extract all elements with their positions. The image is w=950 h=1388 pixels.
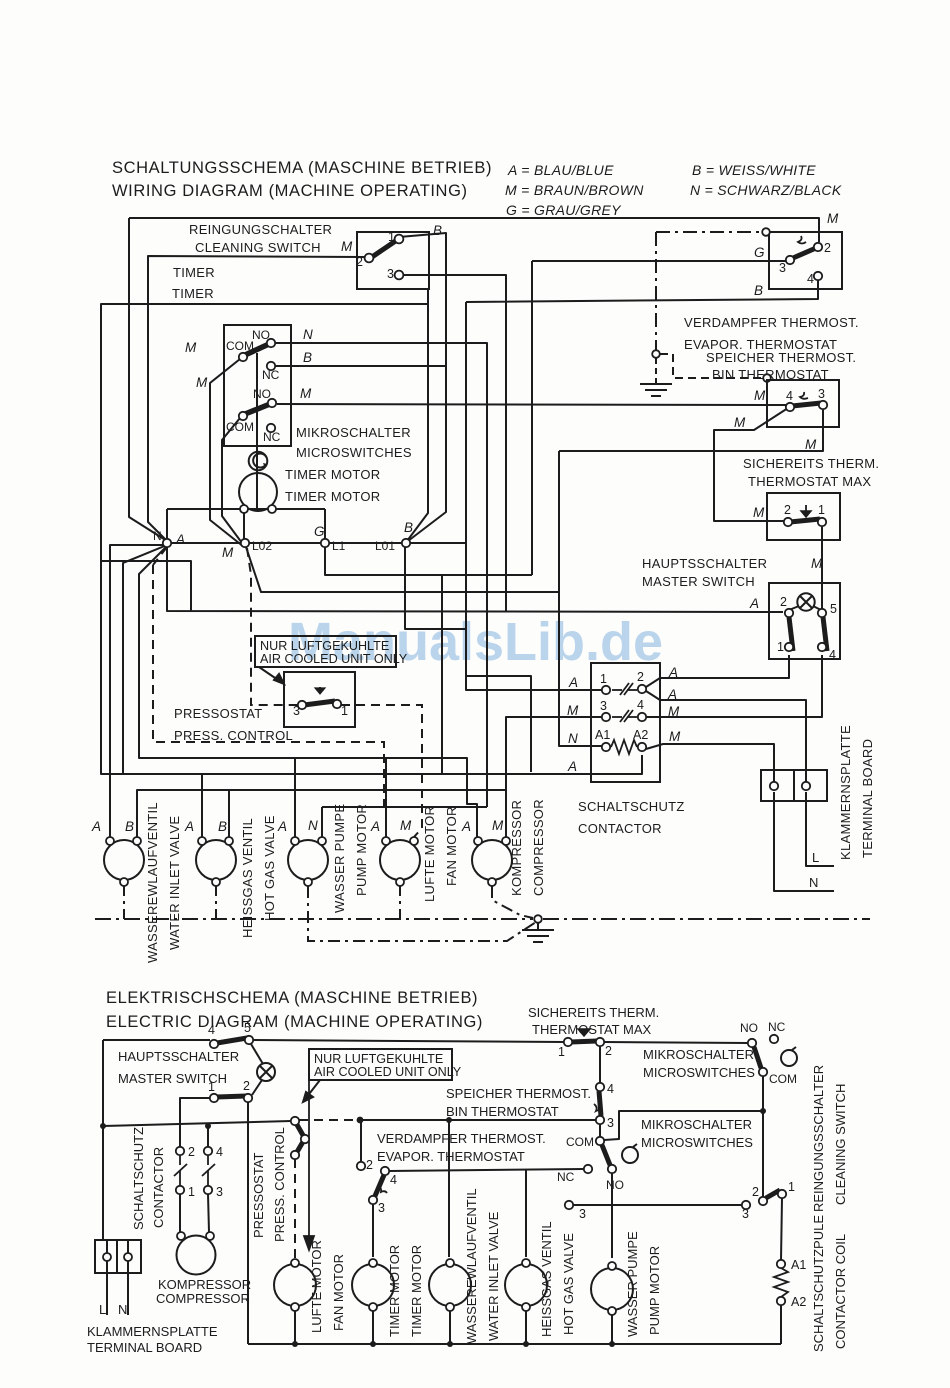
microswitches box <box>224 325 291 509</box>
svg-text:MASTER SWITCH: MASTER SWITCH <box>118 1071 227 1086</box>
wire pump A terminal tap from y758 bus <box>294 758 296 837</box>
svg-text:NC: NC <box>768 1020 786 1034</box>
wire timer motor bottom to bus <box>372 1311 374 1344</box>
svg-text:A: A <box>184 819 194 834</box>
svg-text:1: 1 <box>788 1180 795 1194</box>
svg-text:3: 3 <box>579 1207 586 1221</box>
svg-text:PUMP MOTOR: PUMP MOTOR <box>354 804 369 896</box>
label fan motor bottom (vertical) <box>309 1240 346 1333</box>
svg-text:4: 4 <box>390 1173 397 1187</box>
bottom contactor contacts with slash <box>174 1147 215 1194</box>
motor fan <box>380 840 420 880</box>
junction circle on bin thermostat top <box>763 374 771 382</box>
timer motor small cam circle with arrow <box>249 452 268 471</box>
label mikroschalter 2 bottom <box>641 1117 753 1150</box>
svg-text:3: 3 <box>742 1207 749 1221</box>
svg-text:WASSER PUMPE: WASSER PUMPE <box>332 804 347 913</box>
svg-text:WASSEREWLAUFVENTIL: WASSEREWLAUFVENTIL <box>464 1188 479 1344</box>
svg-text:COMPRESSOR: COMPRESSOR <box>156 1291 250 1306</box>
svg-text:M: M <box>668 704 680 719</box>
wire M from node N up to cleaning switch contact 2 <box>148 256 365 541</box>
svg-text:4: 4 <box>829 648 836 662</box>
wire COM jog to microswitch2 COM <box>604 1111 763 1140</box>
wire terminal board L lead <box>806 792 834 866</box>
bin thermostat contacts 4 3 with bar <box>786 392 827 411</box>
wire L01 jog down to x466 vertical <box>405 547 466 629</box>
svg-text:M: M <box>754 388 766 403</box>
wire evap 3 to timer motor <box>372 1204 374 1257</box>
svg-text:M: M <box>827 211 839 226</box>
svg-text:EVAPOR. THERMOSTAT: EVAPOR. THERMOSTAT <box>377 1149 525 1164</box>
svg-text:MIKROSCHALTER: MIKROSCHALTER <box>641 1117 752 1132</box>
bottom pressostat changeover contacts <box>291 1117 309 1159</box>
svg-text:2: 2 <box>366 1158 373 1172</box>
svg-text:A: A <box>175 532 185 547</box>
label speicher thermost bottom <box>446 1086 591 1119</box>
wire branch y561 to master-A riser <box>101 561 191 611</box>
motor hot gas valve <box>196 840 236 880</box>
wire M row to contactor contact 3 <box>506 717 602 838</box>
svg-text:SCHALTSCHUTZ: SCHALTSCHUTZ <box>131 1127 146 1230</box>
wire G riser from L1 jog <box>531 261 533 575</box>
wire evap 4 to microswitch2 NC <box>389 1169 584 1171</box>
svg-text:SPEICHER THERMOST.: SPEICHER THERMOST. <box>446 1086 591 1101</box>
svg-text:M: M <box>805 437 817 452</box>
microswitch wire colour labels <box>185 327 313 401</box>
svg-text:WASSER PUMPE: WASSER PUMPE <box>625 1231 640 1337</box>
svg-text:FAN MOTOR: FAN MOTOR <box>444 806 459 886</box>
svg-text:AIR COOLED UNIT ONLY: AIR COOLED UNIT ONLY <box>314 1065 462 1079</box>
cleaning switch S1 box <box>357 232 429 289</box>
svg-text:3: 3 <box>293 704 300 718</box>
wire left vertical from bus to terminal board <box>102 1040 104 1239</box>
contactor coil A1 A2 with resistor <box>602 740 646 754</box>
svg-text:TIMER MOTOR: TIMER MOTOR <box>387 1245 402 1337</box>
NUR LUFTGEKUHLTE box top diagram <box>255 636 396 667</box>
svg-text:3: 3 <box>387 267 394 281</box>
svg-text:2: 2 <box>356 255 363 269</box>
svg-text:SICHEREITS THERM.: SICHEREITS THERM. <box>743 456 879 471</box>
svg-text:KOMPRESSOR: KOMPRESSOR <box>509 800 524 896</box>
svg-text:MICROSWITCHES: MICROSWITCHES <box>296 445 412 460</box>
svg-text:TIMER: TIMER <box>173 265 215 280</box>
wire water valve bottom to bus <box>449 1311 451 1344</box>
contactor wire colour labels right <box>667 665 681 744</box>
bottom compressor motor <box>177 1236 216 1275</box>
node labels N A M L02 G L1 L01 B <box>153 529 395 553</box>
label water inlet valve bottom (vertical) <box>464 1188 501 1344</box>
wire master 2 down to bottom bus <box>247 1102 249 1344</box>
svg-text:L02: L02 <box>252 539 272 553</box>
svg-text:SICHEREITS THERM.: SICHEREITS THERM. <box>528 1005 659 1020</box>
timer motor main circle <box>239 473 277 511</box>
svg-text:M: M <box>811 556 823 571</box>
svg-text:M: M <box>185 340 197 355</box>
evap wire labels M G B <box>754 211 839 298</box>
svg-text:THERMOSTAT MAX: THERMOSTAT MAX <box>748 474 871 489</box>
master switch labels 2 5 1 4 <box>777 595 837 662</box>
svg-text:WATER INLET VALVE: WATER INLET VALVE <box>486 1211 501 1341</box>
svg-text:A = BLAU/BLUE: A = BLAU/BLUE <box>507 162 614 178</box>
svg-text:M: M <box>753 505 765 520</box>
bin wire labels M M M <box>734 388 817 452</box>
svg-text:TERMINAL BOARD: TERMINAL BOARD <box>860 739 875 858</box>
label pump motor bottom (vertical) <box>625 1231 662 1337</box>
wire master switch A line from node N <box>167 547 783 612</box>
wire node N fan line to water valve A terminal <box>110 545 167 837</box>
master switch wire label A <box>749 596 759 611</box>
svg-text:REINGUNGSSCHALTER: REINGUNGSSCHALTER <box>811 1065 826 1212</box>
wire hot gas valve riser <box>525 1169 527 1257</box>
svg-text:M: M <box>300 386 312 401</box>
svg-text:3: 3 <box>378 1201 385 1215</box>
svg-text:PRESSOSTAT: PRESSOSTAT <box>174 706 262 721</box>
svg-text:PRESSOSTAT: PRESSOSTAT <box>251 1152 266 1238</box>
svg-text:4: 4 <box>637 698 644 712</box>
svg-text:2: 2 <box>188 1145 195 1159</box>
wire fan A terminal tap from y758 bus <box>385 758 387 837</box>
terminal board top diagram <box>761 770 827 801</box>
wire x123 bus corner into A-bus tap (merge) <box>122 772 124 774</box>
bottom bin thermostat contacts 4 3 <box>594 1083 604 1124</box>
bottom master switch labels <box>208 1021 251 1094</box>
svg-text:VERDAMPFER THERMOST.: VERDAMPFER THERMOST. <box>377 1131 546 1146</box>
svg-text:1: 1 <box>388 230 395 244</box>
svg-text:B: B <box>754 283 763 298</box>
wire contactor contact2 A jog up to master 1 <box>646 655 789 687</box>
svg-text:NO: NO <box>740 1021 758 1035</box>
wire contactor contact4 M row to master 4 riser <box>646 655 822 717</box>
wire timer COM2 M drop to L02 <box>222 418 245 547</box>
microswitch 2 bottom: COM NC NO with roller <box>584 1137 638 1173</box>
wire hot gas valve A terminal drop from A bus <box>201 774 203 837</box>
svg-text:SCHALTSCHUTZ: SCHALTSCHUTZ <box>578 799 685 814</box>
ground symbol below evap link <box>640 384 672 396</box>
motor compressor <box>472 840 512 880</box>
svg-text:4: 4 <box>607 1082 614 1096</box>
svg-text:VERDAMPFER THERMOST.: VERDAMPFER THERMOST. <box>684 315 859 330</box>
wire contactor contact2 A jog down to terminal board right <box>646 691 806 781</box>
node L01 junction <box>402 539 410 547</box>
contactor box top diagram <box>591 663 660 782</box>
wire contactor 4 up to A line <box>207 1126 209 1147</box>
svg-text:AIR COOLED UNIT ONLY: AIR COOLED UNIT ONLY <box>260 652 408 666</box>
bottom thermostat max contacts on bus <box>564 1029 604 1046</box>
svg-text:HOT GAS VALVE: HOT GAS VALVE <box>262 815 277 921</box>
svg-text:SPEICHER THERMOST.: SPEICHER THERMOST. <box>706 350 856 365</box>
svg-text:A2: A2 <box>633 728 648 742</box>
svg-text:THERMOSTAT MAX: THERMOSTAT MAX <box>532 1022 652 1037</box>
svg-text:KOMPRESSOR: KOMPRESSOR <box>158 1277 251 1292</box>
dash-dot ground stem evap <box>655 358 657 383</box>
node L1 junction <box>321 539 329 547</box>
svg-text:1: 1 <box>600 672 607 686</box>
svg-text:B = WEISS/WHITE: B = WEISS/WHITE <box>692 162 816 178</box>
svg-text:WASSEREWLAUFVENTIL: WASSEREWLAUFVENTIL <box>145 802 160 963</box>
wire L1 G branch jog to x532 riser <box>325 547 532 575</box>
svg-text:L: L <box>812 850 819 865</box>
master switch contacts 2 5 1 4 with bars <box>785 609 827 651</box>
svg-text:A: A <box>370 819 380 834</box>
svg-text:3: 3 <box>600 699 607 713</box>
dashed L02 drop to pressostat contact 3 <box>247 548 297 705</box>
svg-text:N = SCHWARZ/BLACK: N = SCHWARZ/BLACK <box>690 182 842 198</box>
bottom pump motor <box>591 1268 633 1310</box>
wire L1 stem to timer line <box>324 509 326 539</box>
terminal board L N labels <box>809 850 819 890</box>
bottom terminal board labels <box>99 1302 127 1317</box>
contactor contacts 3 4 with NO symbol <box>602 710 646 722</box>
svg-text:1: 1 <box>188 1185 195 1199</box>
microswitch 1 bottom: NO NC COM with roller <box>748 1035 797 1076</box>
wire contactor 3 to compressor right <box>208 1194 209 1232</box>
motor terminal colour labels <box>91 818 504 834</box>
svg-text:L01: L01 <box>375 539 395 553</box>
svg-text:L: L <box>99 1302 106 1317</box>
svg-text:SCHALTUNGSSCHEMA (MASCHINE BET: SCHALTUNGSSCHEMA (MASCHINE BETRIEB) <box>112 159 492 177</box>
svg-text:HAUPTSSCHALTER: HAUPTSSCHALTER <box>642 556 767 571</box>
svg-text:MIKROSCHALTER: MIKROSCHALTER <box>296 425 411 440</box>
wire contactor A2 M jog to terminal board left <box>646 744 774 781</box>
svg-text:N: N <box>809 875 818 890</box>
wire bottom top bus <box>103 1039 210 1041</box>
svg-text:KLAMMERNSPLATTE: KLAMMERNSPLATTE <box>838 725 853 860</box>
wire N from microswitch NO1 down to pump N bus <box>276 343 487 807</box>
svg-text:3: 3 <box>607 1116 614 1130</box>
svg-text:PRESS. CONTROL: PRESS. CONTROL <box>174 728 293 743</box>
wire bin M bus to contact 3 drop <box>559 410 823 451</box>
wire L02 M branch to bin thermostat M bus riser <box>246 547 559 592</box>
svg-text:CLEANING SWITCH: CLEANING SWITCH <box>833 1084 848 1205</box>
wire bin contact 4 jog down to thermostat max contact 2 <box>714 408 788 521</box>
wire x559 riser from bin M bus to contactor N row <box>559 451 602 746</box>
wire cleaning contact3 M down to contactor M row and compressor M terminal <box>404 275 506 611</box>
dash-dot evap ground drop <box>655 232 657 350</box>
svg-text:TIMER MOTOR: TIMER MOTOR <box>285 467 381 482</box>
bottom water inlet valve motor <box>429 1264 471 1306</box>
thermostat max contacts 2 1 with bar and actuator <box>784 505 826 526</box>
svg-text:4: 4 <box>786 389 793 403</box>
svg-text:3: 3 <box>779 261 786 275</box>
svg-text:REINGUNGSCHALTER: REINGUNGSCHALTER <box>189 222 332 237</box>
svg-text:PRESS. CONTROL: PRESS. CONTROL <box>272 1127 287 1242</box>
svg-text:A: A <box>461 819 471 834</box>
wire node N fan diagonal to x123 bus <box>123 545 167 774</box>
wire NO2 M bus to bin thermostat contact 4 <box>277 404 786 405</box>
svg-text:LUFTE MOTOR: LUFTE MOTOR <box>422 806 437 902</box>
wire evap 2 riser <box>360 1120 362 1162</box>
svg-text:G: G <box>754 245 765 260</box>
svg-text:CONTACTOR: CONTACTOR <box>151 1147 166 1228</box>
svg-text:A1: A1 <box>595 728 610 742</box>
master switch box <box>769 583 840 659</box>
wire A line from left vertical to pressostat <box>103 1121 291 1126</box>
svg-text:M: M <box>492 818 504 833</box>
SEC_BOTTOM <box>103 1040 782 1344</box>
wire outer-left frame down to node N <box>129 218 167 541</box>
svg-text:A2: A2 <box>791 1295 806 1309</box>
wire water valve riser <box>448 1120 450 1257</box>
SEC_TOPWIRES <box>101 218 834 891</box>
thermostat max labels <box>784 503 825 517</box>
wire terminal board L stub <box>106 1240 108 1315</box>
wire coil A2 to bottom bus <box>780 1305 782 1344</box>
svg-text:A: A <box>91 819 101 834</box>
svg-text:COM: COM <box>566 1135 594 1149</box>
arrow from NUR box to pressostat <box>259 667 284 684</box>
svg-text:COM: COM <box>226 420 254 434</box>
wire hot gas valve bottom to bus <box>525 1311 527 1344</box>
svg-text:B: B <box>303 350 312 365</box>
bottom contactor coil A1 A2 resistor <box>774 1260 788 1305</box>
wire cleaning 1 to coil A1 <box>781 1198 782 1260</box>
svg-text:2: 2 <box>780 595 787 609</box>
label reingungsschalter bottom (vertical) <box>811 1065 848 1212</box>
wire top M bus to evaporator thermostat contact 2 <box>129 218 819 242</box>
contactor wire colour labels left <box>567 675 579 774</box>
dash-dot ground bus <box>95 918 533 920</box>
svg-text:TIMER MOTOR: TIMER MOTOR <box>285 489 381 504</box>
wire fan motor bottom to bus <box>294 1311 296 1344</box>
wire contactor 1 to compressor left <box>179 1194 181 1232</box>
svg-text:A: A <box>668 665 678 680</box>
pressostat contacts 3 1 with bar and actuator <box>298 687 341 709</box>
svg-text:B: B <box>125 819 134 834</box>
SEC_TEXTS <box>106 159 492 1031</box>
svg-text:NUR LUFTGEKUHLTE: NUR LUFTGEKUHLTE <box>314 1052 443 1066</box>
svg-text:MIKROSCHALTER: MIKROSCHALTER <box>643 1047 754 1062</box>
svg-text:COM: COM <box>769 1072 797 1086</box>
dashed pressostat zone left edge <box>153 565 384 808</box>
svg-text:NC: NC <box>262 368 280 382</box>
svg-text:FAN MOTOR: FAN MOTOR <box>331 1254 346 1331</box>
svg-text:CONTACTOR COIL: CONTACTOR COIL <box>833 1234 848 1349</box>
svg-text:M: M <box>222 545 234 560</box>
svg-text:MICROSWITCHES: MICROSWITCHES <box>643 1065 755 1080</box>
svg-text:M = BRAUN/BROWN: M = BRAUN/BROWN <box>505 182 644 198</box>
wire x442 riser from jog line to A bus <box>441 575 443 774</box>
svg-text:4: 4 <box>807 272 814 286</box>
dashed pressostat contact1 to fan M terminal <box>341 705 422 837</box>
svg-text:TERMINAL BOARD: TERMINAL BOARD <box>87 1340 202 1355</box>
wire terminal board N stub <box>127 1240 129 1315</box>
svg-text:WATER INLET VALVE: WATER INLET VALVE <box>167 816 182 950</box>
wire hot gas valve B terminal drop from y790 bus <box>228 790 230 837</box>
cleaning switch labels <box>356 230 395 281</box>
svg-text:WIRING DIAGRAM (MACHINE OPERAT: WIRING DIAGRAM (MACHINE OPERATING) <box>112 182 468 200</box>
dash-dot compressor bottom to ground node <box>492 886 533 918</box>
svg-text:L1: L1 <box>332 539 346 553</box>
svg-text:G: G <box>314 524 325 539</box>
node N junction <box>163 539 171 547</box>
svg-text:1: 1 <box>777 640 784 654</box>
cleaning switch S1 contacts and bar <box>365 235 404 280</box>
contactor contacts 1 2 with NO symbol <box>602 683 646 695</box>
svg-text:2: 2 <box>243 1079 250 1093</box>
dash-dot fan bottom to ground bus <box>399 886 401 919</box>
svg-text:2: 2 <box>752 1185 759 1199</box>
svg-text:NC: NC <box>557 1170 575 1184</box>
svg-text:A: A <box>567 759 577 774</box>
microswitch contact labels <box>226 328 281 444</box>
svg-text:B: B <box>218 819 227 834</box>
svg-text:4: 4 <box>216 1145 223 1159</box>
svg-text:CONTACTOR: CONTACTOR <box>578 821 662 836</box>
svg-text:KLAMMERNSPLATTE: KLAMMERNSPLATTE <box>87 1324 218 1339</box>
svg-text:2: 2 <box>605 1044 612 1058</box>
svg-text:1: 1 <box>818 503 825 517</box>
terminal board circles <box>770 782 810 790</box>
ground symbol below bus <box>522 923 554 942</box>
wire pump N terminal bus <box>322 806 487 808</box>
bottom hot gas valve motor <box>505 1264 547 1306</box>
junction circle on evap box top-left corner <box>762 228 770 236</box>
short arrow from NUR box to pressostat <box>303 1080 320 1102</box>
label hot gas valve bottom (vertical) <box>539 1221 576 1337</box>
bottom terminal board <box>95 1240 141 1273</box>
svg-text:1: 1 <box>341 704 348 718</box>
label pressostat bottom (vertical) <box>251 1127 287 1242</box>
svg-text:5: 5 <box>830 602 837 616</box>
svg-text:COMPRESSOR: COMPRESSOR <box>531 799 546 896</box>
svg-text:NC: NC <box>263 430 281 444</box>
wire bin 3 to microswitch2 COM <box>599 1124 601 1137</box>
microswitch 2 contacts COM NO NC <box>239 399 276 432</box>
dashed jog from ground drop to bin thermostat top <box>660 354 763 378</box>
svg-text:M: M <box>669 729 681 744</box>
thermostat max box <box>767 493 840 540</box>
NUR LUFTGEKUHLTE box bottom <box>309 1049 452 1080</box>
wire L02 stem up to timer line <box>243 509 245 539</box>
svg-text:3: 3 <box>818 387 825 401</box>
wire B NC1 to junction on x446 <box>275 365 446 367</box>
microswitch 1 contacts COM NO NC <box>239 339 275 370</box>
wire baseline node N to L02 L1 L01 <box>171 542 466 544</box>
wire microswitch1 COM down to cleaning 2 <box>762 1076 764 1197</box>
svg-text:N: N <box>303 327 313 342</box>
svg-text:M: M <box>567 703 579 718</box>
pressostat labels 3 1 <box>293 704 348 718</box>
wire timer COM1 M drop to L02 <box>210 359 244 547</box>
label contactor bottom (vertical) <box>131 1127 166 1230</box>
evaporator thermostat labels <box>779 241 831 286</box>
svg-text:M: M <box>341 239 353 254</box>
cleaning switch wire colour labels M B <box>341 223 442 254</box>
svg-text:A: A <box>667 687 677 702</box>
svg-text:SCHALTSCHUTZPULE: SCHALTSCHUTZPULE <box>811 1215 826 1352</box>
timer motor bottom terminals <box>240 505 276 513</box>
wire TIMER bus from x101 to cleaning box vertical <box>101 304 428 561</box>
svg-text:1: 1 <box>558 1045 565 1059</box>
svg-text:CLEANING SWITCH: CLEANING SWITCH <box>195 240 321 255</box>
wire terminal board N lead <box>774 792 834 891</box>
label compressor bottom <box>156 1277 251 1306</box>
svg-text:N: N <box>308 818 318 833</box>
motor water inlet valve <box>104 840 144 880</box>
evaporator thermostat contacts 2 3 4 with bar <box>786 236 822 280</box>
svg-text:TIMER MOTOR: TIMER MOTOR <box>409 1245 424 1337</box>
bottom contactor pin labels <box>188 1145 223 1199</box>
bottom fan motor <box>274 1264 316 1306</box>
svg-text:2: 2 <box>824 241 831 255</box>
wire master 1 to contactor 2 <box>180 1098 210 1147</box>
svg-text:2: 2 <box>637 670 644 684</box>
dash-dot water valve bottom to ground bus <box>123 886 125 919</box>
svg-text:3: 3 <box>216 1185 223 1199</box>
wire water valve B riser and y790 bus <box>137 790 506 837</box>
wire bottom bus <box>248 1343 781 1345</box>
svg-text:2: 2 <box>784 503 791 517</box>
